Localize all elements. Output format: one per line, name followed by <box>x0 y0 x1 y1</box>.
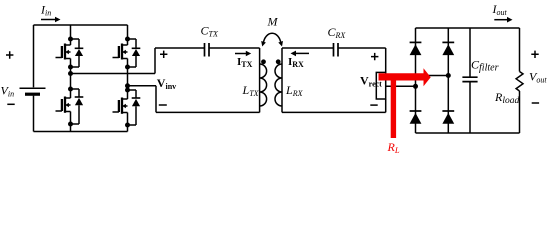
svg-text:M: M <box>267 15 279 29</box>
